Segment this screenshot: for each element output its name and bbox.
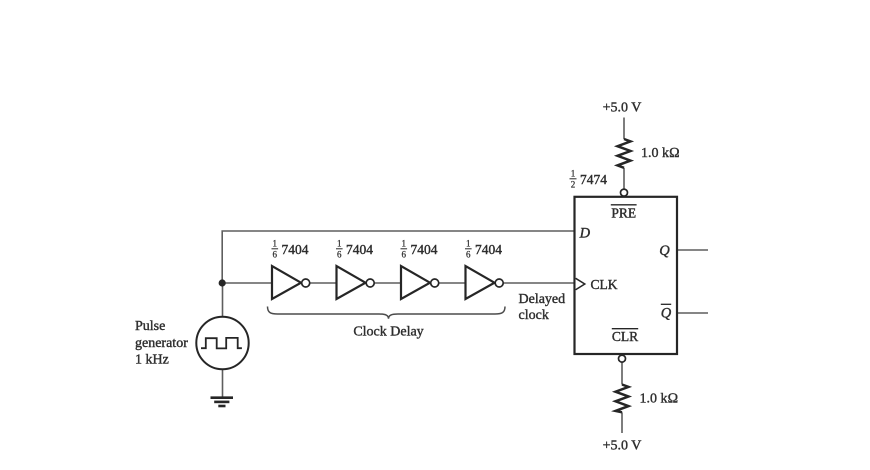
svg-text:PRE: PRE (611, 205, 636, 220)
svg-text:+5.0 V: +5.0 V (603, 438, 642, 453)
svg-text:1 kHz: 1 kHz (135, 353, 169, 368)
svg-text:Q: Q (661, 305, 672, 321)
svg-text:generator: generator (135, 336, 188, 351)
svg-text:6: 6 (337, 250, 342, 260)
svg-text:7474: 7474 (580, 172, 607, 187)
svg-text:2: 2 (571, 180, 576, 190)
svg-text:Delayed: Delayed (519, 292, 566, 307)
svg-text:1.0 kΩ: 1.0 kΩ (641, 146, 680, 161)
svg-text:Clock Delay: Clock Delay (353, 324, 423, 339)
svg-text:clock: clock (519, 308, 549, 323)
svg-text:1: 1 (402, 239, 407, 249)
svg-text:1: 1 (337, 239, 342, 249)
svg-text:6: 6 (466, 250, 471, 260)
svg-text:7404: 7404 (411, 242, 438, 257)
svg-text:1.0 kΩ: 1.0 kΩ (640, 392, 679, 407)
svg-text:D: D (579, 226, 591, 242)
svg-text:1: 1 (571, 169, 576, 179)
svg-text:6: 6 (402, 250, 407, 260)
svg-text:+5.0 V: +5.0 V (603, 100, 642, 115)
svg-text:7404: 7404 (475, 242, 502, 257)
svg-text:CLR: CLR (612, 329, 638, 344)
svg-text:1: 1 (466, 239, 471, 249)
svg-text:6: 6 (273, 250, 278, 260)
svg-text:Pulse: Pulse (135, 319, 165, 334)
svg-text:CLK: CLK (591, 277, 618, 292)
svg-text:1: 1 (273, 239, 278, 249)
svg-text:Q: Q (659, 243, 670, 259)
svg-text:7404: 7404 (282, 242, 309, 257)
svg-text:7404: 7404 (346, 242, 373, 257)
